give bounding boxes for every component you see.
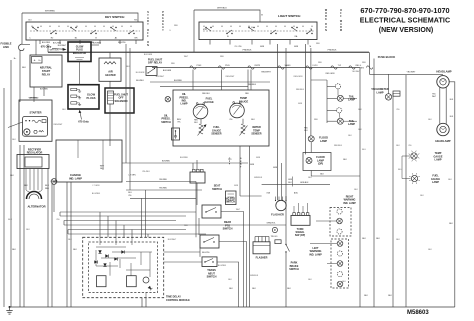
svg-text:FL: FL [227,36,229,38]
svg-text:YEL: YEL [408,145,412,147]
svg-text:BLU: BLU [398,169,402,171]
svg-text:YEL/RED: YEL/RED [159,179,168,181]
svg-text:FLASHER: FLASHER [256,256,268,259]
svg-text:STARTER: STARTER [29,110,41,114]
svg-text:GRN/BLK: GRN/BLK [254,177,263,179]
svg-text:YEL: YEL [229,119,232,121]
svg-text:GAUGE: GAUGE [204,100,214,104]
svg-text:BLK-RED: BLK-RED [53,42,62,44]
svg-text:SENDER: SENDER [251,133,261,136]
svg-text:M: M [340,30,342,32]
svg-text:BLU: BLU [8,219,12,221]
svg-text:SWITCH: SWITCH [289,268,299,271]
svg-text:YEL/BLK: YEL/BLK [142,171,150,173]
svg-text:SWITCH: SWITCH [207,276,217,279]
svg-text:670-770-790-870-970-1070: 670-770-790-870-970-1070 [360,6,449,15]
svg-text:GRN: GRN [298,103,303,105]
svg-text:RED: RED [171,63,176,65]
svg-text:BLU: BLU [362,149,366,151]
svg-text:HEATER: HEATER [105,73,115,77]
svg-text:LAMP: LAMP [320,140,327,143]
svg-text:RED/BLK: RED/BLK [248,84,257,86]
svg-text:ELECTRICAL SCHEMATIC: ELECTRICAL SCHEMATIC [360,17,450,25]
svg-text:L.T GRN: L.T GRN [128,175,136,177]
svg-text:FLASH-ER: FLASH-ER [271,213,284,216]
svg-text:BLU: BLU [45,185,49,187]
svg-text:BLK/RED: BLK/RED [174,80,183,82]
svg-text:YEL: YEL [234,46,238,48]
svg-text:RED: RED [220,56,225,58]
svg-text:START: START [42,69,51,73]
svg-text:BLK/GRN: BLK/GRN [163,70,172,72]
svg-text:RED/GRN: RED/GRN [294,76,303,78]
svg-text:O: O [325,13,327,15]
svg-text:LAMP: LAMP [432,181,439,184]
svg-text:LAMP: LAMP [435,159,442,162]
svg-text:BLK/WHT: BLK/WHT [58,45,67,47]
svg-text:WHT/RED: WHT/RED [45,11,56,13]
svg-text:WHT/BLK: WHT/BLK [217,8,227,10]
svg-text:LAMP: LAMP [348,123,355,126]
svg-text:BLK/GRN: BLK/GRN [144,54,153,56]
svg-text:B+: B+ [39,60,41,62]
svg-text:GRN/VIOL: GRN/VIOL [266,222,275,224]
svg-text:RED: RED [316,43,321,45]
svg-text:YEL/WHT: YEL/WHT [352,71,361,73]
svg-text:RELAY: RELAY [42,73,51,77]
svg-text:RED: RED [314,119,319,121]
svg-text:NEUTRAL: NEUTRAL [40,65,53,69]
svg-text:LINK: LINK [3,45,9,49]
svg-text:YEL: YEL [128,195,131,197]
svg-text:GRN-BLK: GRN-BLK [300,182,309,184]
svg-text:PLUGS: PLUGS [87,96,96,100]
svg-text:LAMP: LAMP [181,103,188,106]
svg-text:BLU/RED: BLU/RED [218,265,227,267]
svg-text:LAMP: LAMP [376,91,383,94]
svg-text:(OP): (OP) [318,163,323,166]
svg-text:RED: RED [362,62,367,64]
svg-text:YEL/RED: YEL/RED [159,187,168,189]
svg-text:O: O [147,42,149,44]
svg-text:RED: RED [184,225,189,227]
svg-text:YEL: YEL [177,121,180,123]
svg-text:IND. LAMP: IND. LAMP [343,202,356,205]
svg-text:RED: RED [174,25,179,27]
svg-text:BLK-RED: BLK-RED [42,42,51,44]
svg-text:RED/WHT: RED/WHT [226,76,236,78]
svg-text:BLK/BLK: BLK/BLK [136,80,144,82]
svg-text:M58603: M58603 [407,310,429,316]
svg-text:INDICATOR: INDICATOR [73,52,87,55]
svg-text:BLK/RED: BLK/RED [162,160,171,162]
svg-text:PNK/BLK: PNK/BLK [328,49,337,51]
svg-text:HEADLAMP: HEADLAMP [436,69,451,73]
svg-text:RED GRN: RED GRN [326,73,335,75]
svg-text:BLK/YEL: BLK/YEL [202,252,210,254]
svg-text:BLK/RED: BLK/RED [180,157,189,159]
svg-text:O: O [147,30,149,32]
svg-text:WASS: WASS [285,64,291,67]
svg-text:FL2O: FL2O [313,65,318,67]
svg-text:O: O [340,10,342,12]
svg-text:YEL/WHT: YEL/WHT [407,72,417,74]
svg-text:BLK/WHT: BLK/WHT [156,76,165,78]
svg-text:RED: RED [134,20,139,22]
svg-text:MTR: MTR [203,29,208,31]
svg-text:GRN: GRN [234,185,239,187]
svg-text:IND. LAMP: IND. LAMP [309,253,322,256]
svg-text:ALTERNATOR: ALTERNATOR [27,205,45,209]
svg-text:YEL: YEL [238,46,242,48]
svg-text:LAMP: LAMP [348,99,355,102]
svg-text:SWITCH: SWITCH [212,188,222,191]
svg-text:AIR: AIR [108,70,113,74]
svg-text:BLK: BLK [22,67,26,69]
svg-text:GAUGE: GAUGE [239,99,249,103]
svg-text:A/BL: A/BL [294,192,298,195]
svg-text:GRN: GRN [250,164,255,166]
svg-text:S/W (OP): S/W (OP) [295,234,305,237]
svg-text:HEADLAMP: HEADLAMP [435,139,450,143]
svg-text:RED: RED [45,188,50,190]
svg-text:GRN: GRN [260,46,265,48]
svg-text:670 Only: 670 Only [78,120,89,123]
svg-text:BLU/RED: BLU/RED [92,193,101,195]
svg-text:IND G: IND G [356,65,362,67]
svg-text:GRN: GRN [294,46,299,48]
svg-text:BLU/GRN: BLU/GRN [136,72,145,74]
svg-text:GRN: GRN [256,157,261,159]
svg-text:670 Only: 670 Only [41,46,52,49]
svg-text:CONTROL MODULE: CONTROL MODULE [166,299,190,302]
svg-text:YEL: YEL [56,219,60,221]
svg-text:SENDER: SENDER [211,133,221,136]
svg-text:GRN: GRN [288,179,293,181]
svg-text:BLK/WHT: BLK/WHT [168,239,177,241]
svg-text:YEL: YEL [396,109,400,111]
svg-text:OFF RELAY: OFF RELAY [148,61,162,65]
svg-text:SWITCH: SWITCH [223,228,233,231]
svg-text:RED: RED [318,62,323,64]
svg-text:IND. LAMP: IND. LAMP [69,176,82,180]
svg-text:GRN: GRN [273,167,278,169]
svg-text:BLK/YEL: BLK/YEL [118,42,126,44]
svg-text:RED BLK: RED BLK [202,93,210,95]
svg-text:CHARGE: CHARGE [70,173,81,177]
svg-text:LIGHT SWITCH: LIGHT SWITCH [278,14,301,18]
svg-text:BLK/WHT: BLK/WHT [93,42,102,44]
svg-text:FUSE BLOCK: FUSE BLOCK [378,55,396,59]
svg-text:WHT/RED: WHT/RED [29,97,38,99]
svg-text:REG: REG [360,67,365,69]
svg-text:IN2P3: IN2P3 [255,65,261,67]
svg-text:LT GRN: LT GRN [93,185,100,187]
svg-text:SWITCH: SWITCH [161,121,171,124]
svg-text:BLK RED: BLK RED [40,88,49,90]
svg-text:KEY SWITCH: KEY SWITCH [105,15,125,19]
svg-text:GRN/BLK: GRN/BLK [250,275,259,277]
svg-text:(NEW VERSION): (NEW VERSION) [379,27,433,34]
svg-text:WHT BLK: WHT BLK [50,50,60,52]
svg-text:SWITCH: SWITCH [225,201,235,204]
svg-text:RED/BLK: RED/BLK [334,145,343,147]
svg-text:TRL BO: TRL BO [271,236,278,238]
svg-text:PNK/BLK: PNK/BLK [243,49,252,51]
svg-text:RED/WHT: RED/WHT [261,71,271,73]
svg-text:RED/WHT: RED/WHT [54,124,64,126]
svg-text:RED/BLK: RED/BLK [296,89,305,91]
